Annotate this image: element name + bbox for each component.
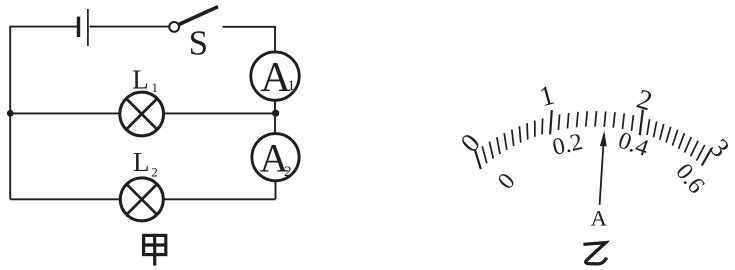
- battery: positive plate (tall thin): [87, 9, 89, 46]
- svg-text:2: 2: [151, 165, 158, 180]
- node: right junction dot: [272, 110, 279, 117]
- wire: middle rail right segment (lamp L1 to junction): [164, 112, 275, 114]
- switch S: open blade: [179, 7, 218, 25]
- lamp L2 circle: [120, 178, 163, 221]
- wire: top rail right segment (switch to right corner): [223, 26, 276, 28]
- svg-text:S: S: [189, 24, 208, 63]
- battery: negative plate (short thick): [77, 17, 80, 37]
- wire: middle rail left segment (to lamp L1): [10, 112, 120, 114]
- node: left junction dot: [7, 110, 14, 117]
- svg-text:1: 1: [536, 80, 558, 114]
- ammeter A1 circle: [251, 52, 299, 100]
- wire: A2 to bottom rail: [275, 181, 277, 200]
- svg-text:0: 0: [455, 128, 486, 158]
- meter scale: minor ticks: [482, 111, 705, 163]
- caption 乙 (figure B): [583, 243, 606, 264]
- lamp L1 circle: [120, 92, 164, 136]
- meter needle shaft: [600, 146, 604, 205]
- svg-text:3: 3: [704, 133, 735, 163]
- svg-text:0.2: 0.2: [550, 129, 585, 161]
- lamp L1 cross: [126, 99, 157, 130]
- svg-text:2: 2: [284, 164, 292, 180]
- svg-text:0: 0: [493, 168, 520, 194]
- switch S: pivot circle: [169, 22, 179, 32]
- svg-text:0.4: 0.4: [615, 128, 652, 163]
- ammeter A2 circle: [252, 134, 299, 181]
- wire: bottom rail left segment (lamp L2 to left rail): [10, 198, 120, 200]
- svg-text:A: A: [591, 206, 608, 231]
- svg-text:1: 1: [288, 78, 296, 94]
- wire: top rail left segment (to battery): [9, 26, 77, 28]
- wire: A1 to node junction: [274, 100, 276, 134]
- wire: left vertical rail: [9, 27, 11, 200]
- meter needle arrowhead: [600, 131, 607, 147]
- svg-text:L: L: [132, 64, 149, 94]
- svg-text:2: 2: [633, 84, 655, 118]
- lamp L2 cross: [127, 184, 157, 214]
- wire: top rail between battery and switch: [90, 26, 170, 28]
- svg-text:1: 1: [152, 80, 159, 95]
- caption 甲 (figure A): [142, 234, 167, 266]
- wire: bottom rail right segment (A2 leg to lamp L2): [163, 198, 275, 200]
- wire: right vertical, top rail to ammeter A1: [274, 26, 276, 52]
- svg-text:0.6: 0.6: [670, 159, 709, 199]
- meter scale: major ticks at 0,1,2,3: [475, 110, 712, 169]
- svg-text:L: L: [133, 147, 150, 177]
